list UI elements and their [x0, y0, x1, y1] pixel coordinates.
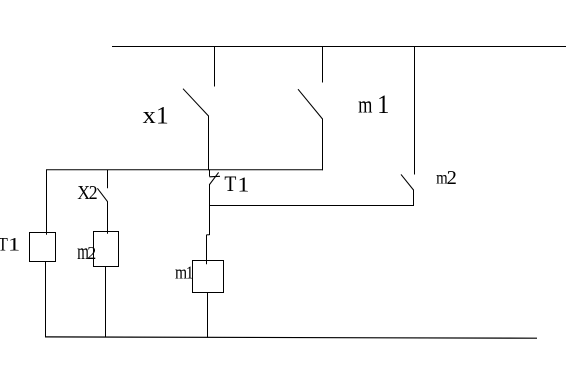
svg-text:2: 2 — [87, 243, 96, 263]
svg-text:m: m — [436, 167, 448, 188]
svg-text:1: 1 — [8, 234, 20, 255]
svg-text:m: m — [77, 240, 89, 265]
svg-text:1: 1 — [237, 172, 249, 196]
svg-text:2: 2 — [447, 167, 457, 189]
svg-text:2: 2 — [89, 182, 98, 204]
svg-text:x: x — [143, 101, 156, 129]
svg-text:1: 1 — [156, 100, 169, 129]
svg-text:1: 1 — [377, 89, 389, 119]
svg-text:m: m — [358, 91, 372, 118]
svg-text:1: 1 — [186, 262, 194, 283]
svg-text:T: T — [224, 171, 236, 196]
svg-text:T: T — [0, 233, 8, 255]
svg-text:m: m — [175, 261, 187, 283]
svg-text:X: X — [77, 182, 90, 204]
